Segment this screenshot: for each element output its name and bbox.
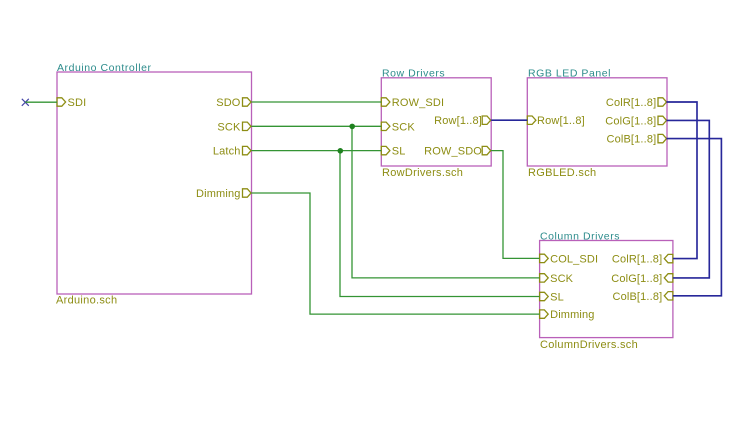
svg-text:ColB[1..8]: ColB[1..8] (606, 134, 656, 146)
svg-text:ColR[1..8]: ColR[1..8] (612, 254, 662, 266)
svg-text:RGB LED Panel: RGB LED Panel (528, 68, 611, 80)
svg-text:SDI: SDI (68, 97, 87, 109)
sheet pin ColG[1..8] (RGB panel out) (605, 115, 666, 127)
sheet Row Drivers (381, 78, 491, 166)
svg-text:SDO: SDO (216, 97, 241, 109)
bus ColB[1..8] (667, 139, 722, 296)
sheet pin Dimming (Column Drivers) (540, 309, 595, 321)
sheet pin ColG[1..8] (Column Drivers in) (611, 273, 673, 285)
svg-text:SL: SL (550, 292, 564, 304)
svg-text:Dimming: Dimming (196, 188, 240, 200)
svg-text:Arduino Controller: Arduino Controller (57, 62, 152, 74)
sheet RGB LED Panel (527, 78, 667, 166)
svg-text:ROW_SDI: ROW_SDI (392, 97, 444, 109)
sheet pin SCK (Row Drivers) (381, 121, 415, 133)
svg-text:RowDrivers.sch: RowDrivers.sch (382, 167, 463, 179)
wire SDO to ROW_SDI (252, 101, 382, 103)
svg-text:Row Drivers: Row Drivers (382, 68, 445, 80)
bus ColR[1..8] (667, 102, 698, 259)
bus ColG[1..8] (667, 120, 710, 278)
svg-text:SL: SL (392, 146, 406, 158)
svg-text:Dimming: Dimming (550, 309, 594, 321)
wire Dimming to Column Drivers Dimming (252, 193, 540, 314)
wire SCK branch to Column Drivers SCK (352, 126, 540, 278)
wire Latch branch to Column Drivers SL (340, 151, 540, 297)
svg-text:Latch: Latch (213, 146, 241, 158)
svg-text:ColumnDrivers.sch: ColumnDrivers.sch (540, 339, 638, 351)
wire SCK to SCK (252, 125, 382, 127)
sheet pin Dimming (196, 188, 251, 200)
svg-text:ColG[1..8]: ColG[1..8] (605, 115, 656, 127)
sheet pin Latch (213, 146, 251, 158)
sheet pin SCK (Column Drivers) (540, 273, 574, 285)
sheet pin SCK (217, 121, 251, 133)
svg-text:Column Drivers: Column Drivers (540, 230, 620, 242)
wire Latch to SL (252, 150, 382, 152)
sheet pin SDO (216, 97, 251, 109)
bus Row[1..8] (491, 119, 527, 121)
sheet pin ROW_SDI (381, 97, 444, 109)
sheet Arduino Controller (57, 72, 252, 294)
sheet pin Row[1..8] (RGB panel in) (527, 115, 585, 127)
sheet pin SL (Row Drivers) (381, 146, 405, 158)
svg-text:ColG[1..8]: ColG[1..8] (611, 273, 662, 285)
wire ROW_SDO to COL_SDI (491, 151, 539, 259)
junction SCK (349, 124, 355, 130)
svg-text:Arduino.sch: Arduino.sch (56, 295, 117, 307)
sheet pin ColR[1..8] (RGB panel out) (606, 97, 667, 109)
sheet pin Row[1..8] (Row Drivers out) (434, 115, 491, 127)
svg-text:ROW_SDO: ROW_SDO (424, 146, 482, 158)
junction Latch (338, 148, 344, 154)
no-connect X (22, 99, 29, 106)
svg-text:Row[1..8]: Row[1..8] (434, 115, 482, 127)
svg-text:SCK: SCK (392, 121, 416, 133)
sheet pin COL_SDI (540, 253, 599, 265)
sheet pin ColR[1..8] (Column Drivers in) (612, 254, 673, 266)
sheet pin ROW_SDO (424, 146, 491, 158)
wire SDI no-connect (25, 101, 57, 103)
sheet pin ColB[1..8] (Column Drivers in) (612, 291, 672, 303)
sheet pin SL (Column Drivers) (540, 292, 564, 304)
svg-text:SCK: SCK (217, 121, 241, 133)
svg-text:COL_SDI: COL_SDI (550, 253, 598, 265)
sheet Column Drivers (540, 241, 673, 338)
sheet pin SDI (57, 97, 86, 109)
svg-text:RGBLED.sch: RGBLED.sch (528, 167, 596, 179)
svg-text:ColR[1..8]: ColR[1..8] (606, 97, 656, 109)
svg-text:SCK: SCK (550, 273, 574, 285)
sheet pin ColB[1..8] (RGB panel out) (606, 134, 666, 146)
svg-text:ColB[1..8]: ColB[1..8] (612, 291, 662, 303)
svg-text:Row[1..8]: Row[1..8] (537, 115, 585, 127)
